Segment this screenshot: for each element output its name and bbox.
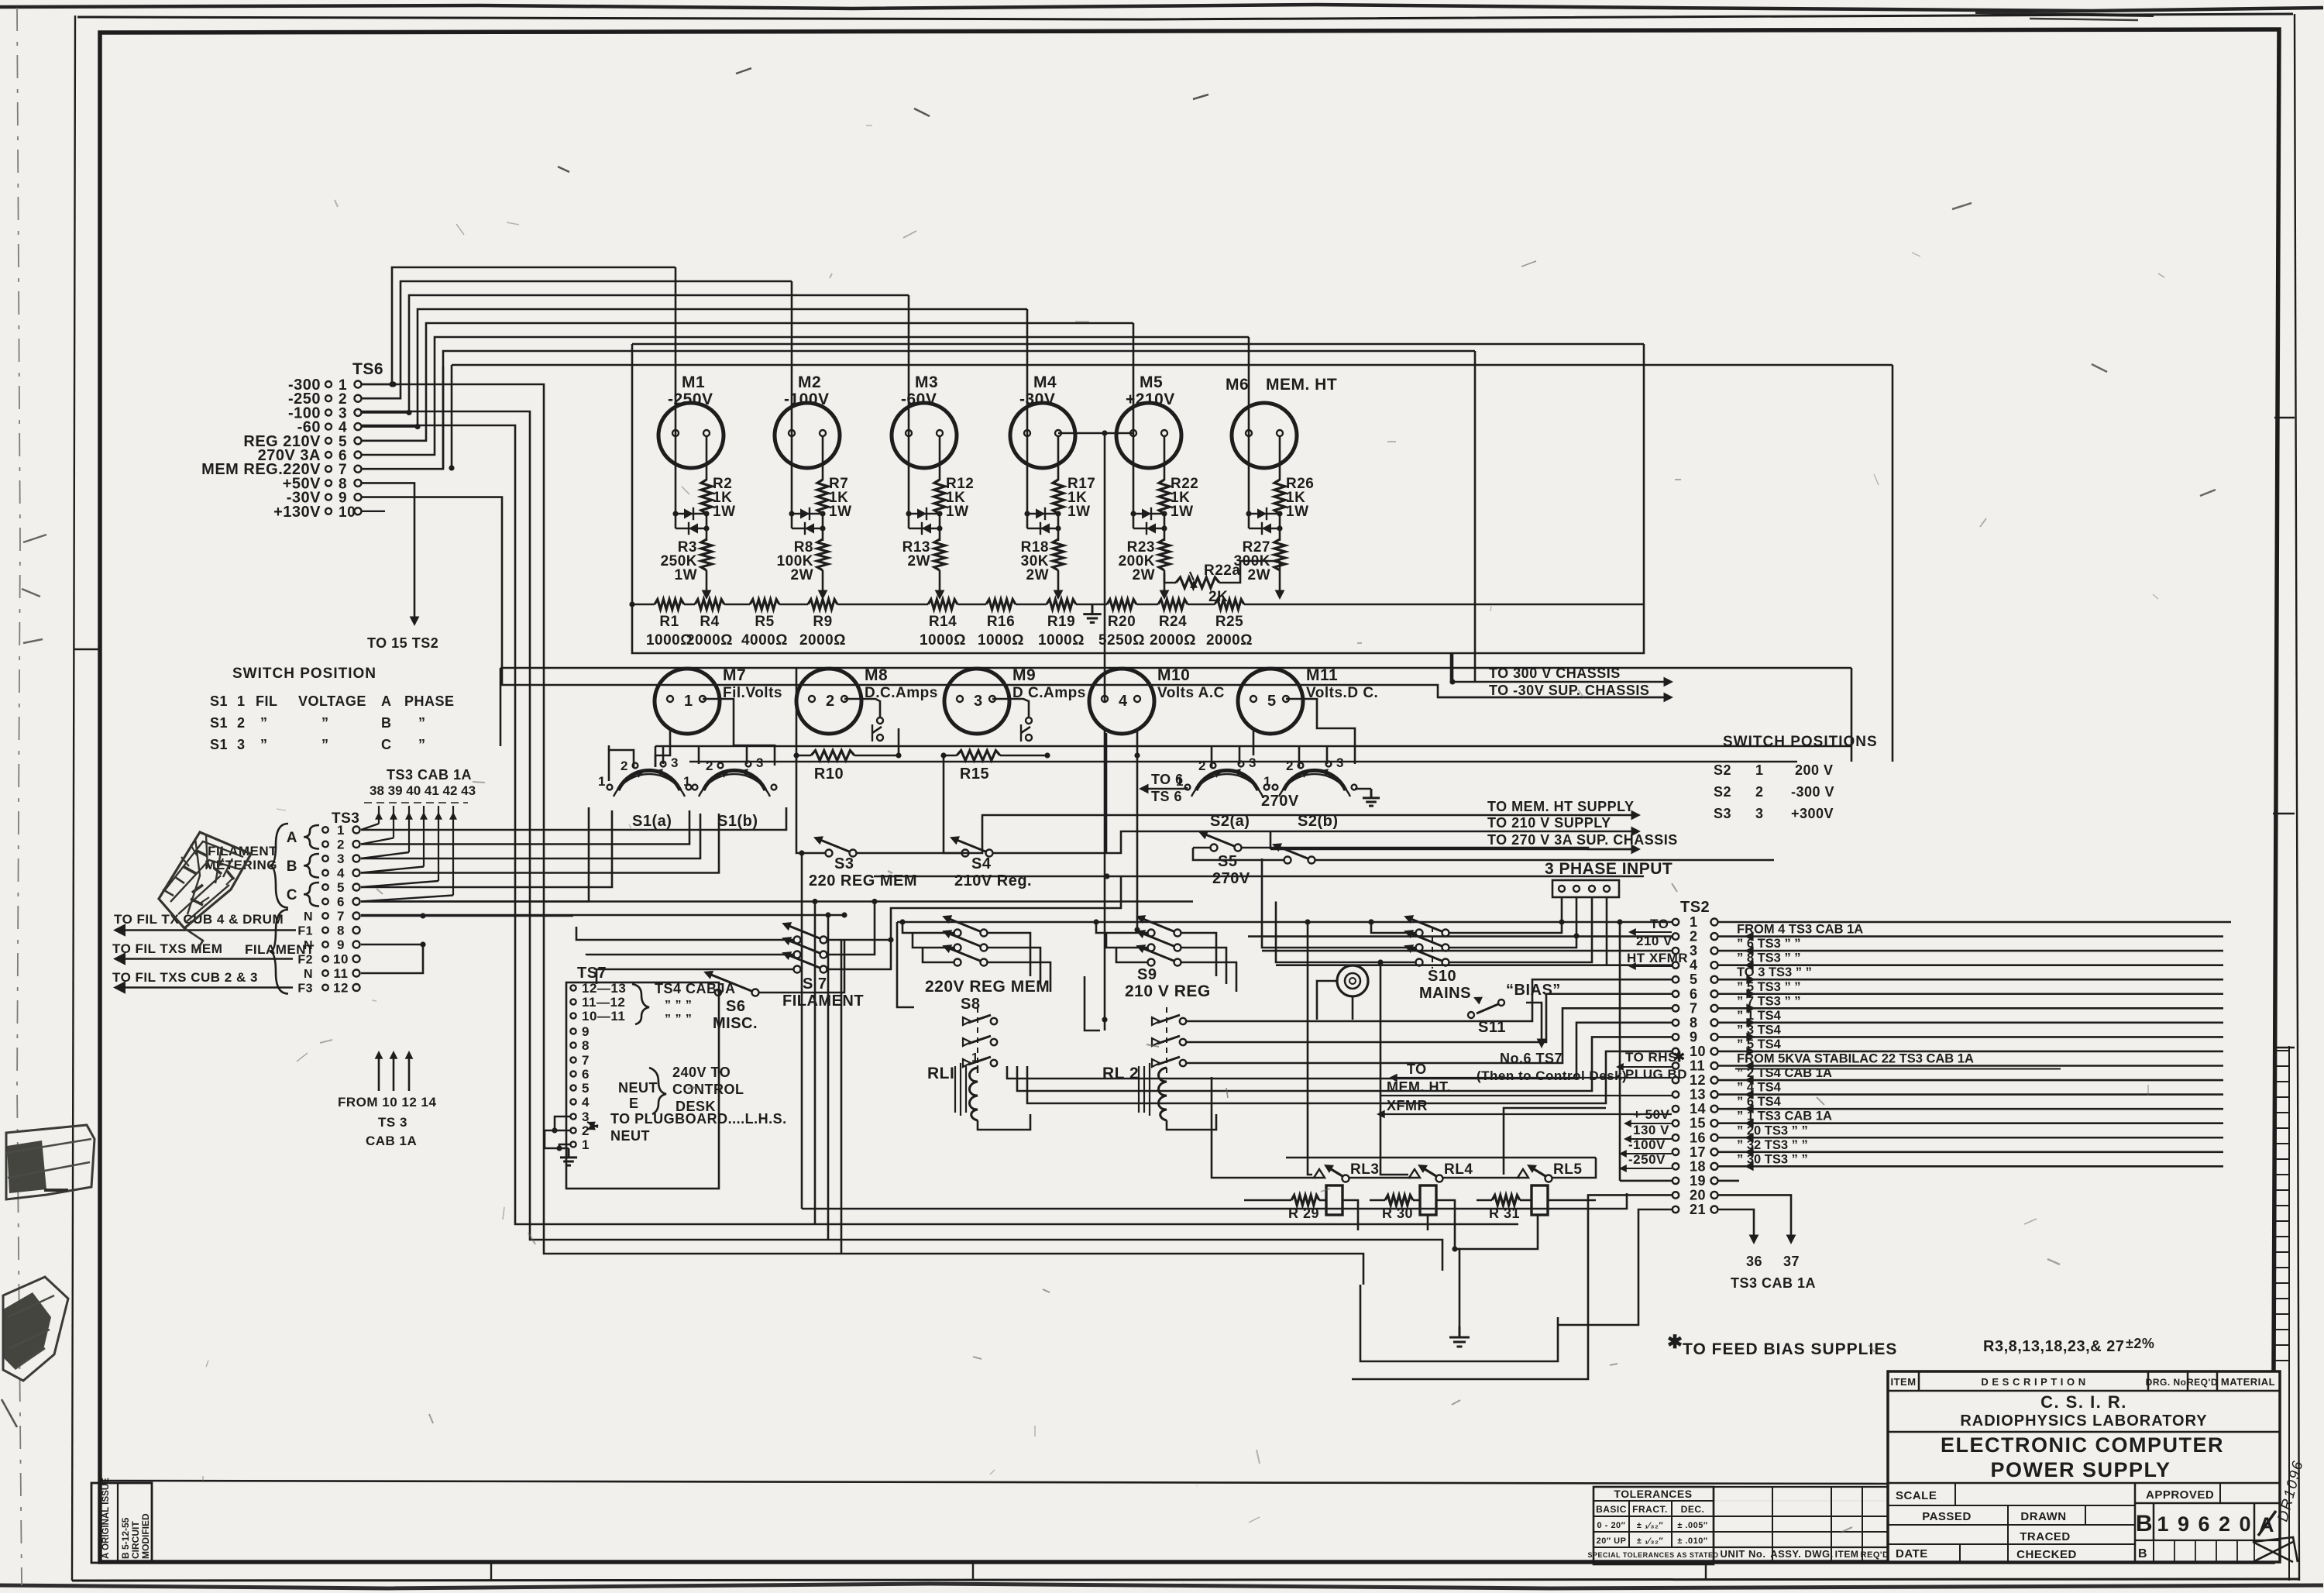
- svg-text:10: 10: [1690, 1044, 1706, 1059]
- outer border left: [72, 15, 75, 1581]
- svg-text:8: 8: [582, 1038, 590, 1053]
- svg-text:M8: M8: [865, 666, 888, 684]
- svg-text:2W: 2W: [1248, 567, 1271, 583]
- TS2 row1 long wire: [897, 921, 1672, 924]
- wires 38-43 to TS3 rows: [361, 824, 379, 830]
- svg-text:S1: S1: [210, 693, 228, 709]
- svg-text:(Then to Control Desk): (Then to Control Desk): [1477, 1068, 1627, 1083]
- svg-text:” 7 TS3 ” ”: ” 7 TS3 ” ”: [1737, 994, 1801, 1008]
- svg-text:-60V: -60V: [901, 391, 937, 408]
- svg-text:3: 3: [1690, 943, 1698, 958]
- svg-text:2: 2: [826, 693, 835, 710]
- TS2 rows2-4 wires: [1248, 935, 1672, 938]
- rotary switch S1(b): [703, 770, 765, 790]
- mid horizontal y1131: [874, 876, 1644, 878]
- svg-text:M9: M9: [1012, 666, 1036, 684]
- TS2 row19 stub: [1620, 1180, 1672, 1182]
- svg-text:CAB 1A: CAB 1A: [366, 1134, 417, 1148]
- svg-text:TRACED: TRACED: [2020, 1530, 2071, 1543]
- svg-text:R14: R14: [929, 614, 957, 630]
- meter M10: [1089, 669, 1154, 734]
- wire box M1-M6 network: [632, 344, 1644, 653]
- wires S8 upper left: [902, 922, 954, 933]
- svg-text:S5: S5: [1218, 853, 1237, 870]
- svg-text:2: 2: [1690, 929, 1698, 944]
- TS7 internal wires: [555, 1116, 570, 1130]
- TS2 rows20/21 left wires: [1588, 1195, 1672, 1277]
- svg-text:3: 3: [1755, 806, 1764, 821]
- long vertical x1782 to RL4: [1380, 962, 1408, 1175]
- svg-text:37: 37: [1783, 1254, 1800, 1269]
- svg-text:R1: R1: [659, 614, 679, 630]
- svg-text:16: 16: [1690, 1130, 1706, 1145]
- svg-text:220 REG MEM: 220 REG MEM: [809, 872, 917, 889]
- svg-text:FRACT.: FRACT.: [1632, 1504, 1668, 1515]
- svg-text:3: 3: [671, 755, 679, 770]
- outer border second line top: [77, 14, 2293, 19]
- wire TS6 row8 to TO 15 TS2: [362, 483, 414, 620]
- svg-text:TS 6: TS 6: [1151, 789, 1182, 804]
- meter M3: [892, 403, 957, 468]
- svg-text:1W: 1W: [829, 504, 852, 520]
- wires S10: [1371, 922, 1416, 933]
- svg-text:S2: S2: [1714, 762, 1731, 778]
- TS6 bus wires: [362, 384, 392, 386]
- svg-text:VOLTAGE: VOLTAGE: [298, 693, 366, 709]
- svg-text:E: E: [629, 1096, 639, 1111]
- svg-text:R9: R9: [813, 614, 832, 630]
- switch S5: [1211, 845, 1218, 852]
- meter M7: [655, 669, 720, 734]
- wire bus under meters row2: [655, 745, 1851, 748]
- svg-text:9: 9: [1690, 1029, 1698, 1044]
- title lower divider: [1888, 1482, 2280, 1485]
- resistor R15: [944, 755, 957, 757]
- svg-text:”: ”: [418, 737, 426, 752]
- svg-text:R19: R19: [1047, 614, 1075, 630]
- svg-text:” 6 TS3 ” ”: ” 6 TS3 ” ”: [1737, 937, 1801, 951]
- svg-text:Volts A.C: Volts A.C: [1157, 685, 1225, 701]
- svg-text:HT XFMR: HT XFMR: [1627, 951, 1688, 965]
- wire box M7-M11: [500, 667, 1851, 669]
- meter M8: [796, 669, 861, 734]
- svg-text:SCALE: SCALE: [1896, 1489, 1937, 1502]
- svg-text:ITEM: ITEM: [1890, 1376, 1916, 1388]
- svg-text:SPECIAL TOLERANCES AS STATE: SPECIAL TOLERANCES AS STATED: [1587, 1551, 1718, 1559]
- svg-text:-30V: -30V: [1019, 391, 1055, 408]
- meter M4: [1010, 403, 1075, 468]
- wires S1 contacts up: [609, 750, 634, 781]
- brace TS4 CABJA: [632, 984, 649, 1024]
- svg-text:S9: S9: [1137, 966, 1157, 983]
- svg-text:R22a: R22a: [1204, 563, 1240, 579]
- wire M9 contact: [992, 699, 1029, 717]
- brace C: [304, 883, 319, 907]
- svg-text:1: 1: [971, 1051, 978, 1065]
- title drawing number: [2153, 1503, 2155, 1540]
- svg-text:10—11: 10—11: [582, 1009, 625, 1024]
- svg-text:36: 36: [1746, 1254, 1762, 1269]
- meter M6: [1232, 403, 1297, 468]
- revision strip box: [91, 1483, 152, 1563]
- rotary switch S2(a): [1196, 770, 1258, 790]
- right edge fold ticks: [2274, 417, 2295, 419]
- svg-text:” 5 TS4: ” 5 TS4: [1737, 1037, 1782, 1051]
- svg-text:S10: S10: [1428, 968, 1456, 985]
- svg-text:2W: 2W: [1026, 567, 1050, 583]
- left edge blob 2 (tape): [3, 1292, 51, 1370]
- svg-text:R20: R20: [1108, 614, 1136, 630]
- svg-text:2: 2: [1755, 784, 1764, 800]
- svg-text:17: 17: [1690, 1144, 1706, 1160]
- svg-text:C: C: [287, 887, 297, 903]
- svg-text:✱: ✱: [1673, 1049, 1686, 1065]
- svg-text:S4: S4: [971, 855, 992, 872]
- svg-text:”: ”: [260, 737, 268, 752]
- relay switch line: [1212, 1077, 1316, 1178]
- svg-text:TS7: TS7: [577, 965, 607, 982]
- wire M4 to M5 link: [1058, 432, 1134, 435]
- svg-text:DEC.: DEC.: [1681, 1504, 1705, 1515]
- svg-text:S1(b): S1(b): [717, 813, 758, 830]
- svg-text:MODIFIED: MODIFIED: [140, 1513, 151, 1559]
- middle cells grid: [1714, 1486, 1888, 1488]
- svg-text:3: 3: [756, 755, 764, 770]
- switch S9 upper poles: [1148, 930, 1155, 937]
- svg-text:5: 5: [1267, 693, 1277, 710]
- meter M3 shunt network R12/R13: [908, 435, 910, 514]
- wire TS6 row9 (-30V): [362, 497, 1663, 697]
- resistor chain R1-R25: [629, 601, 634, 607]
- svg-text:TO 15 TS2: TO 15 TS2: [367, 635, 438, 651]
- svg-text:S3: S3: [834, 855, 854, 872]
- meter M2: [775, 403, 840, 468]
- svg-text:ELECTRONIC COMPUTER: ELECTRONIC COMPUTER: [1941, 1433, 2224, 1457]
- svg-text:2000Ω: 2000Ω: [799, 632, 846, 649]
- svg-text:5250Ω: 5250Ω: [1098, 632, 1145, 649]
- S8 box loop: [897, 922, 914, 1007]
- meter M1 shunt network R2/R3: [675, 435, 677, 514]
- svg-text:PLUG BD: PLUG BD: [1625, 1067, 1687, 1082]
- svg-text:M6: M6: [1226, 376, 1249, 394]
- svg-text:1: 1: [582, 1137, 590, 1152]
- svg-text:9: 9: [582, 1024, 590, 1039]
- svg-text:TS3: TS3: [332, 810, 359, 827]
- switch S4: [962, 850, 969, 857]
- relay RL3: [1314, 1169, 1325, 1178]
- row 10 stub: [362, 511, 385, 512]
- wire S2 contacts up: [1211, 746, 1213, 767]
- svg-text:2: 2: [706, 759, 713, 773]
- svg-text:2000Ω: 2000Ω: [686, 632, 733, 649]
- svg-text:S6: S6: [726, 998, 745, 1015]
- svg-text:RL3: RL3: [1350, 1161, 1379, 1178]
- svg-text:TO 210 V SUPPLY: TO 210 V SUPPLY: [1487, 815, 1611, 831]
- svg-text:TO -30V SUP. CHASSIS: TO -30V SUP. CHASSIS: [1489, 683, 1649, 698]
- svg-text:18: 18: [1690, 1158, 1706, 1174]
- relay coil RL1: [977, 1065, 978, 1073]
- svg-text:1 9 6 2 0: 1 9 6 2 0: [2157, 1512, 2252, 1536]
- svg-text:NEUT: NEUT: [618, 1080, 658, 1096]
- svg-text:“BIAS”: “BIAS”: [1506, 982, 1561, 999]
- svg-text:RADIOPHYSICS LABORATORY: RADIOPHYSICS LABORATORY: [1960, 1412, 2207, 1430]
- nested loop wires: [362, 425, 1518, 1224]
- svg-text:S2: S2: [1714, 784, 1731, 800]
- svg-text:A: A: [287, 830, 297, 846]
- svg-text:200 V: 200 V: [1795, 762, 1834, 778]
- svg-text:± .010″: ± .010″: [1677, 1536, 1708, 1546]
- svg-text:± .005″: ± .005″: [1677, 1521, 1708, 1530]
- svg-text:RL4: RL4: [1444, 1161, 1473, 1178]
- svg-text:270V: 270V: [1212, 870, 1250, 887]
- svg-text:N: N: [304, 910, 313, 924]
- crinkle patch near FILAMENT METERING: [159, 832, 251, 953]
- svg-text:2: 2: [582, 1123, 590, 1138]
- svg-text:2000Ω: 2000Ω: [1150, 632, 1196, 649]
- svg-text:”: ”: [418, 715, 426, 731]
- svg-text:PHASE: PHASE: [404, 693, 455, 709]
- svg-text:DATE: DATE: [1896, 1547, 1928, 1560]
- relay box outline: [1286, 1157, 1596, 1159]
- svg-text:F1: F1: [297, 925, 313, 938]
- title divider: [1888, 1431, 2280, 1433]
- svg-text:± ₁⁄₃₂″: ± ₁⁄₃₂″: [1637, 1521, 1663, 1530]
- svg-text:1W: 1W: [946, 504, 969, 520]
- svg-text:” 20 TS3 ” ”: ” 20 TS3 ” ”: [1737, 1123, 1808, 1137]
- svg-text:S1: S1: [210, 737, 228, 752]
- wire M7 to S1a: [655, 730, 670, 767]
- svg-text:DRG. No.: DRG. No.: [2146, 1377, 2190, 1388]
- svg-text:+130V: +130V: [273, 504, 321, 521]
- TS7 ground: [560, 1148, 577, 1165]
- svg-text:2W: 2W: [908, 553, 931, 569]
- svg-text:+210V: +210V: [1126, 391, 1175, 408]
- bottom margin ticks: [490, 1562, 492, 1581]
- svg-text:” 4 TS4: ” 4 TS4: [1737, 1081, 1782, 1095]
- brace filament: [270, 910, 288, 994]
- bottom strip minor grid: [1593, 1487, 1594, 1562]
- svg-text:TS3 CAB 1A: TS3 CAB 1A: [1731, 1275, 1816, 1291]
- svg-text:2: 2: [1198, 759, 1206, 773]
- svg-text:F3: F3: [297, 982, 313, 996]
- svg-text:C: C: [381, 737, 392, 752]
- svg-text:10: 10: [333, 952, 349, 967]
- svg-text:A: A: [381, 693, 392, 709]
- svg-text:TO FEED BIAS SUPPLIES: TO FEED BIAS SUPPLIES: [1683, 1340, 1897, 1358]
- svg-text:-250V: -250V: [1628, 1152, 1666, 1167]
- svg-text:6: 6: [582, 1067, 590, 1082]
- TS2 rows8-10 staircase to S8: [1007, 1023, 1672, 1079]
- wires TS3 rows to S1 switches: [361, 807, 786, 830]
- switch S3: [826, 850, 833, 857]
- svg-text:R16: R16: [987, 614, 1015, 630]
- wire TS3 row7 to right: [361, 914, 844, 917]
- title block outer: [1888, 1371, 2280, 1562]
- svg-text:210V Reg.: 210V Reg.: [954, 872, 1032, 889]
- relay RL4: [1409, 1169, 1420, 1178]
- svg-text:2: 2: [1286, 759, 1294, 773]
- svg-text:B: B: [2138, 1547, 2147, 1560]
- svg-text:7: 7: [1690, 1000, 1698, 1016]
- svg-text:FILAMENT: FILAMENT: [245, 942, 315, 957]
- svg-text:R4: R4: [700, 614, 719, 630]
- svg-text:M7: M7: [723, 666, 746, 684]
- svg-text:4: 4: [1119, 693, 1128, 710]
- vertical to RL5: [1504, 1108, 1606, 1175]
- meter M6 shunt network R26/R27: [1248, 435, 1250, 514]
- title header row: [1888, 1390, 2280, 1392]
- svg-text:4: 4: [337, 866, 345, 881]
- switch S8 upper poles: [954, 930, 961, 937]
- svg-text:3: 3: [237, 737, 246, 752]
- wire S11 to No6 TS7: [1526, 1003, 1542, 1042]
- wire S6 to S7 box: [758, 940, 844, 993]
- svg-text:2000Ω: 2000Ω: [1206, 632, 1253, 649]
- svg-text:M5: M5: [1140, 373, 1163, 391]
- wires S9 upper: [1096, 922, 1148, 933]
- svg-text:2: 2: [237, 715, 246, 731]
- svg-text:1: 1: [684, 693, 693, 710]
- left edge fold tick: [74, 649, 100, 651]
- svg-text:APPROVED: APPROVED: [2146, 1488, 2214, 1502]
- svg-text:2: 2: [621, 759, 628, 773]
- wire TS3 row6 to right: [361, 900, 1193, 903]
- svg-text:-100V: -100V: [1628, 1137, 1666, 1152]
- switch S6: [715, 989, 721, 996]
- svg-text:5: 5: [582, 1081, 590, 1096]
- svg-text:20″ UP: 20″ UP: [1597, 1536, 1627, 1546]
- svg-text:TS2: TS2: [1680, 899, 1710, 916]
- svg-text:240V TO: 240V TO: [672, 1065, 731, 1080]
- svg-text:4000Ω: 4000Ω: [741, 632, 788, 649]
- svg-text:B: B: [2136, 1511, 2153, 1536]
- title bottom small row: [2135, 1540, 2280, 1541]
- svg-text:” 5 TS3 ” ”: ” 5 TS3 ” ”: [1737, 980, 1801, 994]
- svg-text:-100V: -100V: [784, 391, 830, 408]
- svg-text:”: ”: [321, 737, 329, 752]
- svg-text:REQ'D: REQ'D: [1861, 1550, 1889, 1560]
- svg-text:R24: R24: [1159, 614, 1187, 630]
- svg-text:” ” ”: ” ” ”: [665, 1013, 692, 1026]
- svg-text:C. S. I. R.: C. S. I. R.: [2040, 1392, 2127, 1412]
- switch S9 poles (lower): [1152, 1017, 1160, 1025]
- svg-text:1W: 1W: [675, 567, 698, 583]
- TS2 row20/21 to TS3 CAB1A: [1718, 1195, 1791, 1238]
- svg-text:3: 3: [337, 852, 345, 866]
- TS2 right side wires: [1718, 921, 2231, 924]
- svg-text:” 30 TS3 ” ”: ” 30 TS3 ” ”: [1737, 1152, 1808, 1166]
- svg-text:±2%: ±2%: [2126, 1336, 2154, 1351]
- rotary switch S2(b): [1284, 770, 1346, 790]
- svg-text:1: 1: [1263, 774, 1271, 789]
- svg-text:” 1 TS4: ” 1 TS4: [1737, 1009, 1782, 1023]
- svg-text:1: 1: [237, 693, 246, 709]
- svg-text:MEM. HT.: MEM. HT.: [1387, 1079, 1451, 1095]
- svg-text:1: 1: [683, 774, 691, 789]
- svg-text:10: 10: [339, 504, 356, 521]
- wire M10 down: [1105, 733, 1108, 853]
- svg-text:M3: M3: [915, 373, 938, 391]
- svg-text:1000Ω: 1000Ω: [978, 632, 1024, 649]
- push contact near M8: [877, 717, 883, 724]
- svg-text:M1: M1: [682, 373, 705, 391]
- svg-text:S1(a): S1(a): [632, 813, 672, 830]
- svg-text:8: 8: [1690, 1015, 1698, 1030]
- svg-text:S1: S1: [210, 715, 228, 731]
- mid vertical bundle: [801, 853, 803, 1209]
- scan speckles: [830, 274, 832, 278]
- svg-text:1: 1: [1755, 762, 1764, 778]
- motor symbol: [1337, 965, 1368, 996]
- svg-text:R10: R10: [814, 766, 844, 783]
- title scale row: [1888, 1505, 2135, 1506]
- svg-text:TS3 CAB 1A: TS3 CAB 1A: [387, 767, 472, 783]
- svg-text:RLI: RLI: [927, 1065, 954, 1082]
- long vertical x2091: [1619, 922, 1621, 1181]
- relay wiring: [1244, 1199, 1276, 1202]
- svg-text:1W: 1W: [1067, 504, 1091, 520]
- svg-text:1000Ω: 1000Ω: [920, 632, 966, 649]
- svg-text:D E S C R I P T I O N: D E S C R I P T I O N: [1981, 1376, 2085, 1388]
- svg-text:”: ”: [321, 715, 329, 731]
- svg-text:2W: 2W: [1133, 567, 1156, 583]
- meter M5: [1116, 403, 1181, 468]
- svg-text:12: 12: [1690, 1072, 1706, 1088]
- resistor R10: [796, 755, 811, 757]
- wire M8 contact: [844, 699, 880, 717]
- tolerances rows: [1593, 1500, 1714, 1502]
- svg-text:TO PLUGBOARD....L.H.S.: TO PLUGBOARD....L.H.S.: [610, 1111, 787, 1127]
- svg-text:210 V REG: 210 V REG: [1125, 982, 1211, 1000]
- svg-text:FROM 4 TS3 CAB 1A: FROM 4 TS3 CAB 1A: [1737, 923, 1863, 937]
- svg-text:DRAWN: DRAWN: [2020, 1510, 2066, 1523]
- svg-text:1: 1: [1690, 914, 1698, 930]
- svg-text:7: 7: [337, 909, 345, 924]
- svg-text:SWITCH POSITION: SWITCH POSITION: [232, 666, 376, 682]
- svg-text:MAINS: MAINS: [1419, 985, 1471, 1002]
- svg-text:TS6: TS6: [352, 360, 383, 378]
- svg-text:S3: S3: [1714, 806, 1731, 821]
- switch S11 BIAS: [1468, 1012, 1474, 1018]
- switch S7: [794, 937, 801, 944]
- svg-text:R25: R25: [1215, 614, 1243, 630]
- meter M1: [658, 403, 724, 468]
- right edge ruler: [2288, 1046, 2290, 1581]
- S9 box loop: [1085, 976, 1100, 1030]
- rotary switch S1(a): [618, 770, 680, 790]
- svg-text:20: 20: [1690, 1187, 1706, 1202]
- svg-text:11—12: 11—12: [582, 995, 625, 1010]
- svg-text:6: 6: [337, 895, 345, 910]
- wire M10 right terminal down: [1136, 730, 1139, 930]
- svg-text:3: 3: [1336, 755, 1344, 770]
- top scattered marks: [558, 68, 1208, 172]
- relay RL5: [1518, 1169, 1528, 1178]
- svg-text:5: 5: [337, 880, 345, 895]
- svg-text:1W: 1W: [1171, 504, 1194, 520]
- chain ground: [1083, 604, 1101, 622]
- svg-text:RL 2: RL 2: [1102, 1065, 1139, 1082]
- wires S8 upper to box: [987, 933, 1030, 976]
- svg-text:3 PHASE INPUT: 3 PHASE INPUT: [1545, 860, 1673, 878]
- svg-text:2: 2: [337, 838, 345, 852]
- svg-text:TO 270 V 3A SUP. CHASSIS: TO 270 V 3A SUP. CHASSIS: [1487, 832, 1678, 848]
- svg-text:4: 4: [1690, 958, 1698, 973]
- svg-text:M2: M2: [798, 373, 821, 391]
- svg-text:TO FIL TXS CUB 2 & 3: TO FIL TXS CUB 2 & 3: [112, 970, 258, 985]
- svg-text:11: 11: [334, 966, 349, 981]
- wire box M7 right edge: [796, 668, 798, 762]
